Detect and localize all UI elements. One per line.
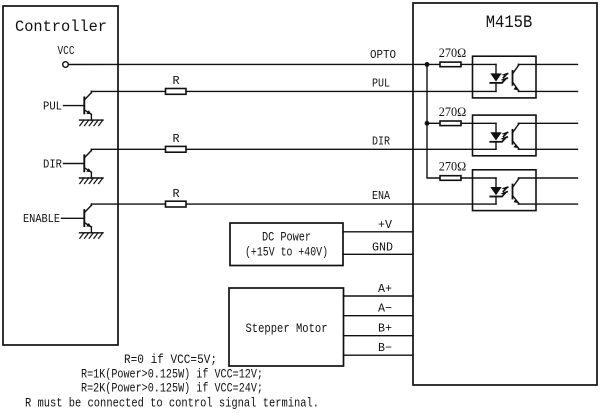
wire motor phase B- bbox=[344, 354, 414, 356]
terminal VCC bbox=[63, 62, 69, 68]
transistor Q3 (ENABLE) bbox=[62, 204, 92, 233]
svg-text:OPTO: OPTO bbox=[370, 48, 396, 62]
wire resistor to opto bbox=[461, 63, 496, 65]
svg-text:PUL: PUL bbox=[372, 76, 390, 90]
svg-text:DIR: DIR bbox=[43, 157, 62, 171]
svg-text:R: R bbox=[172, 187, 179, 201]
controller box bbox=[3, 6, 118, 345]
wire opto emitter out bbox=[519, 90, 578, 92]
wire VCC to OPTO bbox=[68, 63, 440, 65]
svg-text:R must be connected to control: R must be connected to control signal te… bbox=[25, 396, 319, 411]
svg-text:A−: A− bbox=[378, 302, 392, 316]
wire opto collector out bbox=[519, 122, 578, 124]
resistor R1 bbox=[166, 89, 187, 95]
svg-text:R=0 if VCC=5V;: R=0 if VCC=5V; bbox=[124, 352, 217, 367]
ground bbox=[80, 120, 104, 126]
svg-text:R=1K(Power>0.125W) if VCC=12V;: R=1K(Power>0.125W) if VCC=12V; bbox=[81, 366, 263, 381]
wire opto collector out bbox=[519, 177, 578, 179]
wire opto emitter out bbox=[519, 203, 578, 205]
wire trunk to second 270 resistor bbox=[427, 122, 440, 124]
wire motor phase A+ bbox=[344, 295, 414, 297]
wire motor phase A- bbox=[344, 315, 414, 317]
junction node (second opto) bbox=[425, 121, 430, 126]
resistor R3 bbox=[166, 201, 187, 207]
wire resistor to opto bbox=[461, 122, 496, 124]
svg-text:(+15V to +40V): (+15V to +40V) bbox=[245, 246, 328, 260]
resistor R6 270ohm bbox=[440, 176, 461, 181]
ground bbox=[80, 178, 104, 184]
wire ENA line (R to optocoupler) bbox=[186, 203, 496, 205]
svg-text:DC Power: DC Power bbox=[262, 231, 311, 245]
svg-text:B−: B− bbox=[378, 341, 392, 355]
wire DIR line (R to optocoupler) bbox=[186, 148, 496, 150]
wire resistor to opto bbox=[461, 177, 496, 179]
transistor Q2 (DIR) bbox=[64, 149, 92, 178]
svg-text:270Ω: 270Ω bbox=[439, 105, 467, 119]
svg-text:R: R bbox=[172, 132, 179, 146]
svg-text:VCC: VCC bbox=[58, 45, 75, 58]
svg-text:B+: B+ bbox=[378, 322, 392, 336]
svg-text:+V: +V bbox=[378, 218, 393, 232]
svg-text:R=2K(Power>0.125W) if VCC=24V;: R=2K(Power>0.125W) if VCC=24V; bbox=[81, 380, 263, 395]
svg-text:270Ω: 270Ω bbox=[439, 160, 467, 174]
DC power supply box bbox=[230, 223, 343, 266]
wire PUL line (R to optocoupler) bbox=[186, 90, 496, 92]
wire opto emitter out bbox=[519, 148, 578, 150]
wire motor phase B+ bbox=[344, 335, 414, 337]
wire opto collector out bbox=[519, 63, 578, 65]
transistor Q1 (PUL) bbox=[64, 91, 92, 120]
ground bbox=[80, 233, 104, 239]
svg-text:DIR: DIR bbox=[372, 135, 390, 149]
svg-text:270Ω: 270Ω bbox=[439, 46, 467, 60]
resistor R2 bbox=[166, 146, 187, 152]
svg-text:ENABLE: ENABLE bbox=[23, 212, 60, 226]
svg-text:ENA: ENA bbox=[372, 189, 390, 203]
wire +V bbox=[343, 231, 413, 233]
junction node (OPTO/first opto) bbox=[425, 62, 430, 67]
optocoupler U1 bbox=[473, 56, 537, 98]
svg-text:Controller: Controller bbox=[15, 18, 107, 36]
svg-text:PUL: PUL bbox=[43, 99, 62, 113]
stepper motor box bbox=[229, 288, 344, 366]
svg-text:M415B: M415B bbox=[486, 14, 533, 33]
wire ENA line (left of R) bbox=[91, 203, 165, 205]
wire PUL line (left of R) bbox=[91, 90, 165, 92]
resistor R4 270ohm bbox=[440, 62, 461, 67]
wire DIR line (left of R) bbox=[91, 148, 165, 150]
wire GND bbox=[343, 253, 413, 255]
resistor R5 270ohm bbox=[440, 121, 461, 126]
driver box M415B bbox=[413, 3, 597, 385]
wire OPTO supply trunk bbox=[427, 64, 440, 178]
svg-text:A+: A+ bbox=[378, 282, 392, 296]
svg-text:R: R bbox=[172, 74, 179, 88]
svg-text:GND: GND bbox=[372, 241, 393, 255]
optocoupler U3 bbox=[473, 170, 537, 211]
svg-text:Stepper Motor: Stepper Motor bbox=[246, 321, 328, 336]
optocoupler U2 bbox=[473, 115, 537, 156]
